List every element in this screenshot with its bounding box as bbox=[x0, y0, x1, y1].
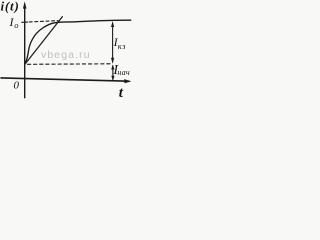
svg-text:нач: нач bbox=[117, 68, 130, 77]
svg-text:o: o bbox=[14, 20, 18, 30]
svg-text:vbega.ru: vbega.ru bbox=[41, 49, 91, 61]
svg-text:кз: кз bbox=[118, 41, 126, 51]
svg-text:t: t bbox=[119, 85, 124, 101]
svg-text:0: 0 bbox=[14, 79, 20, 91]
svg-text:i(t): i(t) bbox=[1, 0, 20, 14]
